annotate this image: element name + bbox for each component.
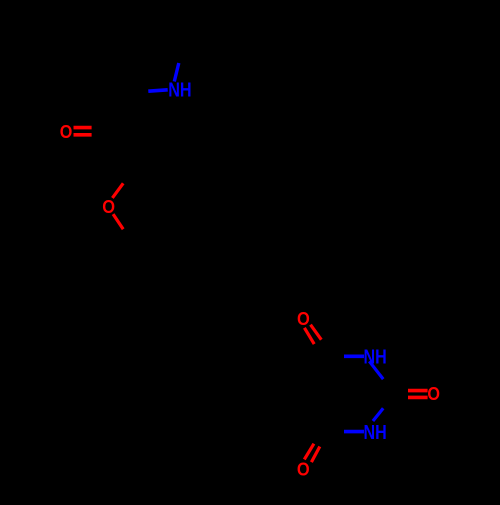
wire C2=O2 double bond (red half)	[408, 389, 428, 393]
wire C6=O6 double bond (red half)	[304, 444, 314, 460]
wire N3-C2 (blue half)	[369, 361, 383, 379]
wire N-C3 (blue half)	[148, 90, 167, 91]
svg-text:NH: NH	[364, 347, 387, 369]
svg-text:O: O	[102, 197, 115, 217]
wire O-CH3 down (red half)	[113, 214, 123, 229]
svg-text:O: O	[297, 459, 310, 479]
wire C4=O4 double bond (red half)	[304, 328, 314, 344]
wire C4-N3 (blue half)	[344, 354, 364, 358]
svg-text:O: O	[60, 122, 73, 142]
wire C6-N1 (blue half)	[344, 430, 364, 434]
svg-text:NH: NH	[168, 80, 191, 102]
wire N-CH3 (blue half)	[174, 63, 179, 82]
wire O-C up (red half)	[112, 183, 123, 198]
wire C=O double bond (red half)	[74, 126, 92, 130]
svg-text:NH: NH	[364, 422, 387, 444]
wire N1-C2 (blue half)	[373, 408, 383, 421]
svg-text:O: O	[297, 309, 310, 329]
svg-text:O: O	[427, 384, 440, 404]
